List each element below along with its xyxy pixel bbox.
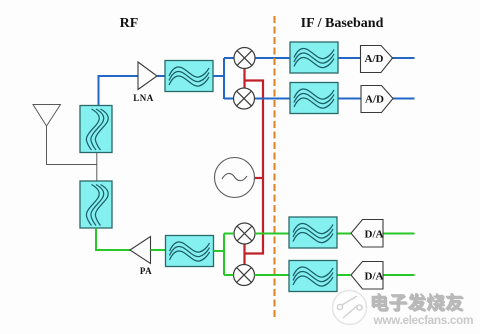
wire green mixer4 to IF filter row4: [255, 274, 290, 276]
mixer M4: [234, 265, 255, 286]
amplifier LNA: [138, 62, 157, 90]
wire blue mixer2 to IF filter row2: [255, 98, 291, 100]
wire red LO feed: [255, 177, 264, 179]
wire green filter2 to PA: [96, 228, 130, 250]
wire green D/A row4 output: [383, 274, 415, 276]
filter F7 (IF filter row3): [289, 217, 337, 248]
oscillator LO: [215, 158, 255, 198]
wire blue A/D row1 output: [393, 57, 415, 59]
svg-text:PA: PA: [140, 266, 152, 276]
wire green PA to TX filter: [151, 249, 167, 251]
filter F8 (IF filter row4): [289, 261, 337, 292]
watermark logo: [333, 291, 367, 325]
wire red main loop: [245, 81, 264, 254]
svg-text:IF / Baseband: IF / Baseband: [301, 16, 384, 31]
wire blue A/D row2 output: [393, 98, 415, 100]
filter F1 (RX band filter, vertical): [80, 106, 112, 153]
wire red mixer3-mixer4 stub: [243, 244, 245, 265]
wire blue IF filter row1 to A/D: [337, 57, 361, 59]
antenna: [33, 105, 61, 127]
amplifier PA: [130, 237, 151, 264]
wire LNA to RF filter: [157, 75, 165, 77]
svg-text:A/D: A/D: [365, 94, 384, 106]
mixer M2: [234, 88, 255, 109]
converter D/A row4: [351, 262, 383, 290]
converter A/D row2: [361, 86, 393, 113]
wire antenna stem: [47, 126, 97, 165]
filter F4 (IF filter row1): [290, 42, 338, 73]
filter F5 (IF filter row2): [290, 83, 338, 114]
svg-text:A/D: A/D: [365, 53, 384, 65]
wire green TX filter to splitter: [214, 234, 235, 276]
filter F6 (TX RF filter, horizontal): [166, 236, 214, 267]
wire green mixer3 to IF filter row3: [255, 233, 290, 235]
svg-text:D/A: D/A: [365, 229, 384, 241]
wire green IF filter row4 to D/A: [338, 274, 351, 276]
watermark text: [373, 294, 464, 312]
svg-text:D/A: D/A: [365, 271, 384, 283]
svg-text:RF: RF: [120, 16, 139, 31]
wire blue filter1 to LNA: [99, 76, 139, 106]
wire between RF filters: [96, 153, 98, 182]
wire blue IF filter row2 to A/D: [337, 98, 361, 100]
separator dashed line: [274, 16, 276, 318]
svg-text:www.elecfans.com: www.elecfans.com: [373, 313, 474, 327]
filter F3 (RX RF filter, horizontal): [165, 61, 213, 92]
mixer M3: [234, 223, 255, 244]
svg-text:LNA: LNA: [133, 93, 154, 103]
wire blue mixer1 to IF filter row1: [255, 57, 290, 59]
wire green IF filter row3 to D/A: [338, 233, 352, 235]
wire blue filter to splitter: [213, 58, 234, 99]
converter D/A row3: [351, 220, 383, 248]
wire green D/A row3 output: [383, 233, 415, 235]
wire red mixer1-mixer2 stub: [243, 69, 245, 89]
mixer M1: [234, 48, 255, 69]
converter A/D row1: [361, 46, 393, 73]
filter F2 (TX band filter, vertical): [80, 181, 112, 228]
